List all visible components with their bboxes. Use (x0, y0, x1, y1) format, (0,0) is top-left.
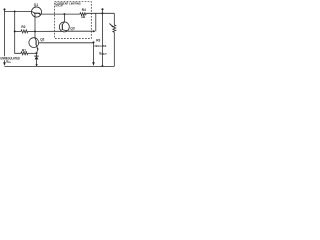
transistor Q1 circle (31, 7, 41, 17)
transistor Q1 emitter diagonal with arrow (38, 13, 41, 14)
node junction dot zener top (36, 52, 38, 54)
wire Q2 collector vertical to node (34, 31, 36, 38)
wire Eout measurement line (93, 42, 95, 62)
node junction dot Q1 base / Q2 collector (34, 30, 36, 32)
wire divider vertical from output line to bottom rail (101, 13, 103, 66)
svg-text:EOUT: EOUT (99, 51, 107, 56)
svg-text:R2: R2 (21, 25, 25, 29)
wire right edge from load to bottom rail (113, 32, 115, 66)
Ein arrow head (points down to bottom rail) (3, 62, 6, 66)
svg-text:REGULATED: REGULATED (95, 44, 107, 48)
node junction dot Eout top (93, 41, 95, 43)
svg-text:R4: R4 (82, 8, 86, 12)
transistor Q3 circle (59, 22, 69, 32)
transistor Q3 emitter diagonal with arrow (62, 30, 67, 32)
node junction dot divider bottom (101, 65, 103, 67)
svg-text:UNREGULATED: UNREGULATED (0, 57, 20, 61)
arrow of variable load resistor (110, 24, 113, 27)
svg-text:R1: R1 (22, 49, 26, 53)
transistor Q1 collector diagonal (32, 12, 35, 14)
wire R2 left lead (15, 30, 21, 32)
node junction dot at R2 left (14, 30, 16, 32)
wire vertical from top rail down to R1 row (15, 11, 21, 53)
node junction dot zener bottom on rail (36, 64, 38, 66)
node output + terminal stub and dot (101, 10, 103, 13)
wire Q2 base lead to the right (to Eout node) (39, 42, 94, 44)
transistor Q1 base bar (34, 12, 40, 14)
node junction dot Q3 collector on emitter line (63, 13, 65, 15)
transistor Q2 circle (29, 38, 39, 48)
wire bottom rail (5, 65, 115, 67)
wire top rail from input + to Q1 collector (5, 10, 32, 12)
wire R1 right lead to zener node (28, 52, 37, 54)
wire Q3 emitter line to pot wiper with right arrow (68, 30, 94, 32)
transistor Q2 base bar (35, 40, 37, 45)
resistor RL load zigzag (variable) (113, 25, 116, 33)
wire Q1 base down to node (34, 13, 36, 31)
wire Q3 collector vertical (63, 14, 65, 22)
svg-text:R3: R3 (96, 38, 100, 42)
label UNREGULATED background (0, 56, 21, 60)
transistor Q3 base bar (61, 24, 63, 30)
wire R2 right lead to Q1 base node (28, 30, 35, 32)
node input + terminal dot (3, 8, 5, 10)
dashed box current limiting circuit (55, 2, 92, 39)
node junction dot at divider top (101, 12, 103, 14)
svg-text:1Ω: 1Ω (81, 15, 86, 19)
resistor R2 zigzag (21, 30, 28, 33)
wire right edge down to load (113, 13, 115, 25)
svg-text:Q1: Q1 (34, 3, 38, 7)
transistor Q2 emitter diagonal with arrow to zener node (36, 45, 38, 49)
resistor R1 zigzag (21, 52, 28, 55)
wire Q1 emitter line to R4 (41, 13, 80, 15)
resistor R4 zigzag (80, 13, 86, 16)
svg-text:Q2: Q2 (40, 37, 44, 41)
wire left vertical (unregulated input line) (4, 9, 6, 62)
wire pot top lead vertical (95, 13, 97, 31)
wire R4 right to output corner (86, 12, 114, 14)
zener diode CR1 (36, 53, 38, 56)
svg-text:CIRCUIT: CIRCUIT (55, 4, 63, 8)
svg-text:Q3: Q3 (70, 26, 74, 30)
wire Q3 base lead from left (35, 30, 62, 32)
Eout arrow head down (92, 62, 95, 66)
node junction dot on top rail at R2 branch (14, 10, 16, 12)
transistor Q3 collector diagonal (62, 22, 64, 25)
